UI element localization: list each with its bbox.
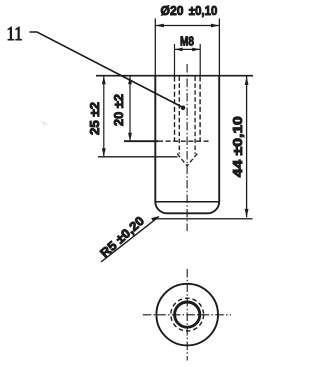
svg-text:±0,10: ±0,10 — [189, 3, 218, 18]
dim text R5 +-0,20 — [98, 214, 148, 261]
bottom view vertical centerline — [186, 269, 188, 361]
dim 44 dimension line — [245, 77, 249, 218]
dim phi20 dimension line — [155, 24, 219, 28]
faint scan artifact — [41, 121, 48, 127]
bottom view outer circle — [156, 284, 218, 346]
dim 20 extension line (thread depth) — [124, 140, 211, 142]
svg-text:44 ±0,10: 44 ±0,10 — [231, 116, 245, 177]
dim R5 leader line with arrow — [101, 216, 160, 262]
dim text phi20 +-0,10 — [161, 3, 218, 18]
svg-text:M8: M8 — [180, 34, 194, 48]
dim 25 extension line (drill depth) — [98, 156, 178, 158]
dim 44 bottom extension line — [152, 218, 253, 220]
dim text 20 +-2 — [112, 94, 126, 126]
bottom view horizontal centerline — [143, 314, 231, 316]
svg-text:R5 ±0,20: R5 ±0,20 — [98, 214, 148, 261]
leader dot — [181, 106, 186, 111]
bottom view thread major circle (hidden) — [171, 298, 204, 331]
front view top face line (also extension for 25 and 44 dims) — [96, 75, 253, 77]
dim text M8 — [180, 34, 194, 48]
svg-text:25 ±2: 25 ±2 — [88, 102, 102, 135]
svg-text:11: 11 — [7, 24, 23, 45]
bottom view drill hole circle — [175, 302, 200, 327]
dim M8 extension lines — [175, 44, 201, 76]
dim M8 dimension line — [175, 48, 201, 52]
dim 20 dimension line — [128, 76, 132, 142]
dim 25 dimension line — [102, 76, 106, 157]
drill point cone hidden lines — [177, 154, 197, 166]
leader line from 11 to thread — [30, 32, 184, 108]
R5 tangent line — [155, 201, 219, 203]
dim text 25 +-2 — [88, 102, 102, 135]
drill minor diameter hidden lines — [179, 77, 195, 154]
part label 11 — [7, 24, 23, 45]
vertical centerline of front view — [186, 64, 188, 231]
thread major diameter hidden lines — [175, 77, 201, 141]
front view body outline — [155, 76, 219, 214]
dim text 44 +-0,10 — [231, 116, 245, 177]
svg-text:Ø20: Ø20 — [161, 3, 184, 18]
svg-text:20 ±2: 20 ±2 — [112, 94, 126, 126]
dim phi20 extension lines — [155, 19, 219, 76]
